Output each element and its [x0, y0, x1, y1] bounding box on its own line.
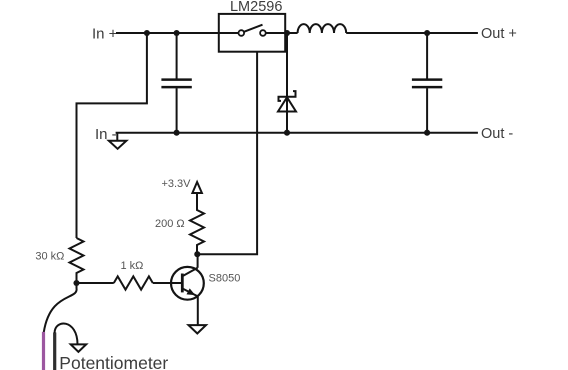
junction dot ground rail at output capacitor: [424, 130, 430, 136]
wire Q1 collector up to node: [197, 254, 199, 268]
svg-text:Out -: Out -: [481, 126, 513, 142]
svg-text:Out +: Out +: [481, 26, 517, 42]
svg-text:Potentiometer: Potentiometer: [59, 353, 168, 370]
capacitor C2 output: [412, 33, 442, 133]
wire Q1 emitter down to ground: [197, 296, 199, 325]
transistor Q1 S8050: [171, 267, 204, 300]
junction dot switch node SW: [284, 30, 290, 36]
junction dot collector node: [194, 251, 200, 257]
inductor L1: [298, 24, 347, 33]
resistor R3 200 Ohm: [190, 193, 204, 254]
svg-text:1 kΩ: 1 kΩ: [121, 260, 144, 272]
capacitor C1 input: [161, 33, 191, 133]
potentiometer RV1 purple track bar: [42, 332, 45, 370]
junction dot ground rail at input capacitor: [174, 130, 180, 136]
potentiometer RV1 body bar: [53, 333, 56, 370]
ground symbol at Q1 emitter: [189, 325, 207, 333]
junction dot Out+ at output capacitor: [424, 30, 430, 36]
resistor R1 30 kOhm: [70, 238, 84, 283]
curved wire base node to potentiometer wiper: [44, 283, 77, 332]
wire collector node to U1 bottom pin: [197, 52, 257, 255]
junction dot ground rail at zener: [284, 130, 290, 136]
resistor R2 1 kOhm: [114, 276, 153, 289]
switch inside U1: [219, 25, 285, 36]
wire base node to R2: [77, 282, 114, 284]
svg-text:30 kΩ: 30 kΩ: [35, 251, 64, 263]
potentiometer wiper arrowhead: [71, 344, 87, 352]
svg-text:S8050: S8050: [209, 273, 241, 285]
regulator U1 LM2596 body: [219, 14, 285, 52]
zener diode D1: [278, 33, 296, 133]
wire inductor to Out+: [346, 32, 478, 34]
potentiometer wiper curved arrow: [55, 323, 78, 344]
svg-text:+3.3V: +3.3V: [161, 178, 191, 190]
svg-text:200 Ω: 200 Ω: [155, 218, 185, 230]
wire In+ drop down to R1: [77, 33, 147, 238]
wire ground rail In- to Out-: [116, 132, 478, 134]
junction dot base node: [73, 280, 79, 286]
junction dot In+ at input capacitor: [174, 30, 180, 36]
ground symbol at In-: [109, 133, 127, 149]
power +3.3V arrow: [192, 182, 202, 193]
junction dot In+ branch to R1: [144, 30, 150, 36]
wire SW node to inductor: [285, 32, 297, 34]
wire R2 to Q1 base: [153, 282, 181, 284]
wire In+ rail from label to regulator: [116, 32, 219, 34]
svg-text:In +: In +: [92, 25, 118, 42]
